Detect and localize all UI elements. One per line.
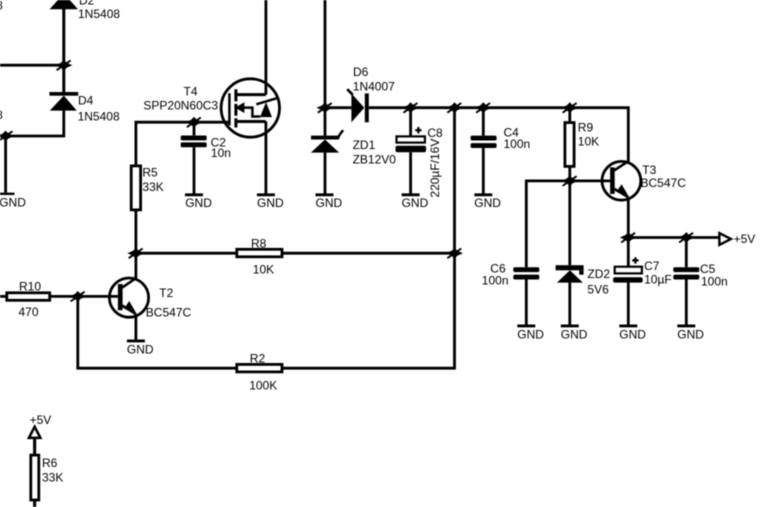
- wire C4 bottom lead: [482, 148, 485, 194]
- svg-text:C7: C7: [644, 259, 660, 273]
- svg-text:R5: R5: [142, 165, 158, 179]
- svg-text:SPP20N60C3: SPP20N60C3: [143, 99, 218, 113]
- ground (left): [0, 194, 26, 210]
- wire C8 top lead: [409, 108, 412, 137]
- wire R10 to T2 base: [50, 295, 118, 298]
- resistor R5: [131, 165, 164, 210]
- svg-text:10µF: 10µF: [644, 273, 672, 287]
- svg-text:R9: R9: [578, 121, 594, 135]
- wire T3 base to C6 branch: [526, 181, 610, 267]
- svg-text:+5V: +5V: [734, 232, 756, 246]
- wire C2 top lead: [193, 122, 196, 135]
- svg-text:GND: GND: [0, 195, 26, 209]
- wire R9 top lead: [568, 108, 571, 123]
- svg-text:GND: GND: [185, 196, 212, 210]
- node R9 tap: [561, 102, 578, 113]
- node D2/D4 junction: [55, 60, 72, 71]
- node emitter/C7/+5V junction: [620, 232, 637, 243]
- svg-text:ZB12V0: ZB12V0: [353, 153, 397, 167]
- capacitor C5: [673, 262, 727, 288]
- wire C8 bottom lead: [409, 152, 412, 194]
- node R8 right junction: [446, 248, 463, 259]
- node C2 tap on gate wire: [186, 117, 203, 128]
- resistor R10: [0, 280, 50, 319]
- wire R5 node to R8: [136, 252, 237, 255]
- node C4 tap: [475, 102, 492, 113]
- node C5 tap: [678, 232, 695, 243]
- node C8 tap: [402, 102, 419, 113]
- diode D4: [49, 92, 120, 123]
- wire R8/R2 vertical: [282, 108, 455, 369]
- capacitor C2: [181, 136, 231, 161]
- svg-text:470: 470: [19, 305, 39, 319]
- svg-text:1N5408: 1N5408: [0, 108, 3, 122]
- svg-text:T4: T4: [184, 85, 198, 99]
- wire +5V to R6: [33, 438, 36, 455]
- svg-text:GND: GND: [402, 196, 429, 210]
- svg-text:1N4007: 1N4007: [353, 80, 395, 94]
- svg-text:GND: GND: [316, 196, 343, 210]
- svg-text:BC547C: BC547C: [146, 306, 192, 320]
- ground (ZD1): [316, 195, 343, 210]
- wire R9 bottom lead: [568, 166, 571, 181]
- wire C7 bottom lead: [627, 283, 630, 325]
- svg-text:ZD1: ZD1: [353, 138, 376, 152]
- diode D6: [347, 65, 395, 122]
- resistor R2: [237, 352, 282, 393]
- ground (C8): [402, 195, 429, 210]
- svg-text:33K: 33K: [142, 180, 163, 194]
- wire junction down to R2: [78, 296, 237, 368]
- capacitor C8: [396, 126, 444, 198]
- wire R6 bottom to edge: [33, 500, 36, 507]
- wire ZD2 top lead: [568, 181, 571, 265]
- wire C2 bottom lead: [193, 147, 196, 194]
- wire ZD2 bottom lead: [568, 283, 571, 325]
- node R10/T2/R2 junction: [69, 291, 86, 302]
- ground (C5): [677, 326, 704, 342]
- power +5V (bottom-left): [29, 413, 51, 438]
- wire C5 top lead: [685, 238, 688, 268]
- node R8/R2 vertical tap on rail: [446, 102, 463, 113]
- transistor T2: [109, 278, 191, 320]
- mosfet T4: [143, 79, 279, 137]
- wire T3 emitter down to C7: [627, 198, 630, 267]
- svg-text:GND: GND: [257, 196, 284, 210]
- wire ZD1 to ground: [324, 153, 327, 194]
- wire top vertical at ZD1 node: [324, 0, 327, 136]
- svg-text:+5V: +5V: [30, 413, 52, 427]
- wire R8 right lead: [282, 252, 455, 255]
- wire D2/D4 node down: [62, 65, 65, 92]
- wire T2 emitter to ground: [134, 314, 137, 340]
- wire node to D6 anode: [325, 106, 351, 109]
- svg-text:5V6: 5V6: [587, 282, 609, 296]
- ground (C6): [517, 326, 544, 342]
- svg-text:T2: T2: [159, 286, 173, 300]
- svg-text:ZD2: ZD2: [587, 267, 610, 281]
- wire T4 source to ground: [264, 122, 267, 195]
- ground (C7): [619, 326, 646, 342]
- capacitor C4: [471, 126, 531, 151]
- svg-text:1N5408: 1N5408: [78, 109, 120, 123]
- svg-text:R2: R2: [250, 352, 266, 366]
- wire gate of T4 to R5 top: [136, 122, 230, 166]
- power +5V (right): [719, 232, 755, 246]
- svg-text:GND: GND: [474, 196, 501, 210]
- resistor R8: [237, 237, 282, 277]
- svg-text:GND: GND: [677, 327, 704, 341]
- wire R5 bottom to T2 collector: [134, 210, 137, 279]
- wire C6 bottom lead: [525, 280, 528, 325]
- resistor R6: [31, 455, 64, 500]
- wire D4 anode to left ground branch: [6, 111, 64, 193]
- svg-text:1N5408: 1N5408: [0, 0, 3, 13]
- svg-text:BC547C: BC547C: [641, 176, 687, 190]
- svg-text:C8: C8: [427, 126, 443, 140]
- svg-text:R8: R8: [251, 237, 267, 251]
- svg-text:220µF/16V: 220µF/16V: [428, 139, 442, 198]
- wire T4 drain up to top edge: [264, 0, 267, 95]
- svg-text:R6: R6: [42, 456, 58, 470]
- capacitor C6: [482, 262, 540, 288]
- wire left input to D2/D4 node: [0, 64, 64, 67]
- node rail/ZD1/D6 junction: [317, 102, 334, 113]
- node left corner junction: [0, 131, 14, 142]
- ground (C2): [185, 195, 212, 210]
- svg-text:GND: GND: [517, 327, 544, 341]
- svg-text:100n: 100n: [482, 274, 509, 288]
- svg-text:T3: T3: [642, 163, 656, 177]
- svg-text:R10: R10: [19, 280, 41, 294]
- node R9/ZD2/base junction: [561, 176, 578, 187]
- svg-text:GND: GND: [561, 327, 588, 341]
- svg-text:100n: 100n: [701, 274, 728, 288]
- svg-text:100K: 100K: [249, 379, 277, 393]
- ground (ZD2): [561, 326, 588, 342]
- svg-text:GND: GND: [127, 342, 154, 356]
- svg-text:10K: 10K: [253, 263, 274, 277]
- svg-text:GND: GND: [619, 327, 646, 341]
- zener ZD2: [556, 265, 611, 296]
- ground (C4): [474, 195, 501, 210]
- resistor R9: [565, 121, 599, 167]
- wire main rail D6 to T3 collector corner: [369, 108, 629, 162]
- svg-text:10n: 10n: [211, 146, 231, 160]
- svg-text:10K: 10K: [578, 135, 599, 149]
- ground (T4 source): [257, 195, 284, 210]
- zener ZD1: [311, 130, 396, 167]
- wire C5 bottom lead: [685, 280, 688, 325]
- svg-text:1N5408: 1N5408: [78, 7, 120, 21]
- transistor T3: [602, 161, 686, 200]
- svg-text:100n: 100n: [504, 137, 531, 151]
- wire +5V rail: [628, 236, 719, 239]
- capacitor C7: [613, 257, 672, 286]
- node R5/R8/T2 junction: [127, 248, 144, 259]
- ground (T2): [127, 341, 154, 357]
- svg-text:33K: 33K: [42, 470, 63, 484]
- wire C4 top lead: [482, 108, 485, 136]
- svg-text:D4: D4: [78, 94, 94, 108]
- diode D2: [50, 0, 121, 65]
- svg-text:D6: D6: [353, 65, 369, 79]
